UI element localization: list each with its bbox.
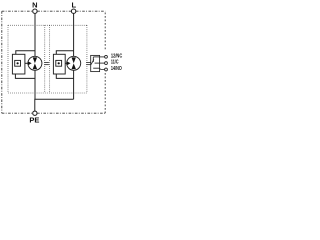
svg-text:L: L	[72, 1, 77, 10]
svg-text:N: N	[32, 1, 37, 10]
svg-text:12/NC: 12/NC	[111, 53, 122, 59]
svg-text:PE: PE	[29, 116, 39, 125]
svg-text:11/C: 11/C	[111, 60, 119, 66]
svg-text:14/NO: 14/NO	[111, 66, 122, 72]
